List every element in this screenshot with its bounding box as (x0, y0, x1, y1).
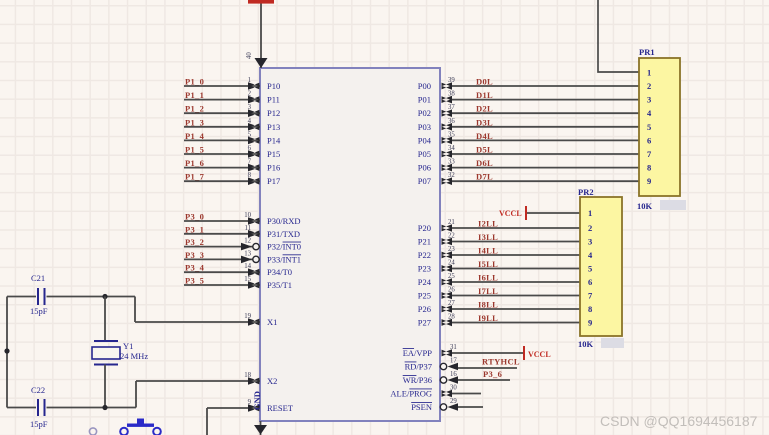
node junction left rail (4, 348, 9, 353)
svg-text:P3_2: P3_2 (185, 237, 204, 247)
svg-text:8: 8 (588, 304, 592, 314)
svg-text:35: 35 (448, 131, 455, 138)
svg-text:19: 19 (244, 313, 251, 320)
pin 31 arrow (442, 349, 453, 357)
pin 3 arrow (248, 109, 260, 117)
svg-text:P26: P26 (418, 304, 431, 314)
wire P3_3 to pin 13 (184, 258, 260, 260)
wire X2 pin 18 (136, 380, 260, 382)
wire P20 to PR2 pin 2 (452, 227, 580, 229)
pin 16 inversion bubble (440, 377, 446, 383)
svg-text:5: 5 (647, 122, 651, 132)
svg-text:P23: P23 (418, 264, 431, 274)
svg-text:P20: P20 (418, 223, 431, 233)
wire P06 to PR1 pin 8 (452, 167, 639, 169)
wire P3_2 to pin 12 (184, 246, 260, 248)
pin 21 arrow (442, 224, 453, 232)
svg-text:EA/VPP: EA/VPP (403, 348, 433, 358)
wire top rail down to X1 (134, 297, 136, 323)
wire P1_5 to pin 6 (184, 153, 260, 155)
svg-text:P14: P14 (267, 135, 281, 145)
svg-text:D3L: D3L (476, 117, 493, 127)
pin 17 arrow (448, 363, 459, 371)
svg-text:I2LL: I2LL (478, 219, 498, 229)
svg-text:10K: 10K (637, 201, 653, 211)
pin 4 arrow (248, 123, 260, 131)
svg-text:P3_6: P3_6 (483, 369, 502, 379)
wire P05 to PR1 pin 7 (452, 153, 639, 155)
svg-text:D0L: D0L (476, 77, 493, 87)
svg-text:P34/T0: P34/T0 (267, 267, 292, 277)
svg-text:D2L: D2L (476, 104, 493, 114)
pin 6 arrow (248, 150, 260, 158)
svg-text:10: 10 (244, 212, 251, 219)
PR2 faded annotation (601, 338, 624, 348)
pin 27 arrow (442, 305, 453, 313)
node faint pad left of button (89, 428, 96, 435)
svg-text:VCCL: VCCL (528, 350, 551, 359)
wire P3_4 to pin 14 (184, 271, 260, 273)
svg-text:11: 11 (244, 225, 251, 232)
svg-text:I5LL: I5LL (478, 259, 498, 269)
pin 13 arrow (241, 256, 252, 264)
svg-text:15: 15 (244, 276, 251, 283)
pin 25 arrow (442, 278, 453, 286)
svg-text:30: 30 (450, 385, 457, 392)
svg-text:P15: P15 (267, 149, 280, 159)
svg-text:P21: P21 (418, 237, 431, 247)
svg-text:8: 8 (248, 172, 252, 179)
svg-text:P24: P24 (418, 277, 432, 287)
svg-text:X2: X2 (267, 376, 277, 386)
pin 34 arrow (442, 150, 453, 158)
svg-text:1: 1 (248, 77, 251, 84)
wire C21 top rail right segment (47, 296, 136, 298)
pin 28 arrow (442, 319, 453, 327)
wire P1_2 to pin 3 (184, 112, 260, 114)
wire P1_3 to pin 4 (184, 126, 260, 128)
wire P02 to PR1 pin 4 (452, 112, 639, 114)
svg-text:P02: P02 (418, 108, 431, 118)
svg-text:13: 13 (244, 250, 251, 257)
svg-text:P00: P00 (418, 81, 431, 91)
svg-text:37: 37 (448, 104, 455, 111)
wire left ground rail (6, 297, 8, 408)
pin 17 inversion bubble (440, 363, 446, 369)
pin 36 arrow (442, 123, 453, 131)
svg-text:PSEN: PSEN (411, 402, 432, 412)
svg-text:6: 6 (647, 135, 651, 145)
pin 38 arrow (442, 96, 453, 104)
svg-text:3: 3 (647, 95, 651, 105)
svg-text:P1_7: P1_7 (185, 172, 205, 182)
svg-text:39: 39 (448, 77, 455, 84)
svg-text:5: 5 (588, 264, 592, 274)
pin 33 arrow (442, 164, 453, 172)
svg-text:I8LL: I8LL (478, 300, 498, 310)
svg-text:C22: C22 (31, 385, 45, 395)
pin 29 arrow (448, 403, 459, 411)
svg-text:P3_4: P3_4 (185, 263, 205, 273)
wire pin40 VCC stem (260, 3, 262, 68)
power VCCL bar (PR2 pin1) (525, 206, 527, 220)
wire P26 to PR2 pin 8 (452, 308, 580, 310)
svg-text:P3_5: P3_5 (185, 276, 204, 286)
svg-text:21: 21 (448, 219, 455, 226)
pin 14 arrow (248, 268, 260, 276)
svg-text:P1_2: P1_2 (185, 104, 204, 114)
pin 12 inversion bubble (253, 243, 259, 249)
wire P07 to PR1 pin 9 (452, 180, 639, 182)
svg-text:D6L: D6L (476, 158, 493, 168)
node junction crystal bottom (102, 405, 107, 410)
svg-text:18: 18 (244, 372, 251, 379)
svg-text:P1_3: P1_3 (185, 117, 204, 127)
svg-text:GND: GND (252, 391, 262, 410)
svg-text:P33/INT1: P33/INT1 (267, 254, 301, 264)
wire crystal bottom lead (104, 365, 106, 408)
svg-text:D1L: D1L (476, 90, 493, 100)
svg-text:14: 14 (244, 263, 251, 270)
svg-text:P01: P01 (418, 95, 431, 105)
svg-text:17: 17 (450, 358, 457, 365)
svg-text:D5L: D5L (476, 145, 493, 155)
wire P1_4 to pin 5 (184, 139, 260, 141)
pin 23 arrow (442, 251, 453, 259)
svg-text:25: 25 (448, 273, 455, 280)
svg-text:2: 2 (248, 91, 252, 98)
capacitor C21 plates (37, 288, 39, 305)
wire X1 pin 19 (135, 321, 260, 323)
svg-text:P1_1: P1_1 (185, 90, 204, 100)
svg-text:34: 34 (448, 145, 455, 152)
pin 13 inversion bubble (253, 256, 259, 262)
svg-text:P1_0: P1_0 (185, 77, 204, 87)
svg-text:D4L: D4L (476, 131, 493, 141)
wire RD/P37 net (458, 367, 517, 369)
wire P23 to PR2 pin 5 (452, 268, 580, 270)
svg-text:P25: P25 (418, 291, 431, 301)
wire VCCL to PR2 pin 1 (527, 212, 580, 214)
svg-text:24 MHz: 24 MHz (120, 351, 148, 361)
svg-text:P1_6: P1_6 (185, 158, 204, 168)
pin 15 arrow (248, 281, 260, 289)
wire WR/P36 net (458, 379, 510, 381)
svg-text:15pF: 15pF (30, 419, 48, 429)
pin 39 arrow (442, 82, 453, 90)
svg-text:27: 27 (448, 300, 455, 307)
svg-text:PR1: PR1 (639, 47, 655, 57)
wire ALE/PROG stub (452, 393, 481, 395)
svg-text:1: 1 (588, 208, 592, 218)
svg-text:PR2: PR2 (578, 187, 594, 197)
pin 22 arrow (442, 238, 453, 246)
svg-text:9: 9 (588, 318, 592, 328)
svg-text:9: 9 (647, 176, 651, 186)
svg-text:6: 6 (588, 277, 592, 287)
svg-text:3: 3 (248, 104, 252, 111)
wire P21 to PR2 pin 3 (452, 241, 580, 243)
wire VCC to PR1 pin 1 (598, 0, 639, 72)
node junction crystal top (102, 294, 107, 299)
pin 12 arrow (241, 243, 252, 251)
svg-text:32: 32 (448, 172, 455, 179)
svg-text:I7LL: I7LL (478, 286, 498, 296)
svg-text:4: 4 (248, 118, 252, 125)
svg-text:P35/T1: P35/T1 (267, 280, 292, 290)
svg-text:P3_1: P3_1 (185, 224, 204, 234)
svg-text:P07: P07 (418, 176, 431, 186)
resistor pack PR2 body (580, 197, 622, 336)
svg-text:36: 36 (448, 118, 455, 125)
wire P1_0 to pin 1 (184, 85, 260, 87)
svg-text:33: 33 (448, 159, 455, 166)
svg-text:P03: P03 (418, 122, 431, 132)
svg-text:C21: C21 (31, 273, 45, 283)
wire crystal top lead (104, 297, 106, 342)
wire PSEN stub (458, 406, 483, 408)
wire C21 top rail left segment (7, 296, 36, 298)
wire P27 to PR2 pin 9 (452, 322, 580, 324)
svg-text:P04: P04 (418, 135, 432, 145)
svg-text:6: 6 (248, 145, 252, 152)
wire P24 to PR2 pin 6 (452, 281, 580, 283)
wire pin20 GND stub (260, 421, 262, 435)
wire P01 to PR1 pin 3 (452, 99, 639, 101)
svg-text:P27: P27 (418, 318, 431, 328)
wire EA/VPP to VCCL (452, 352, 523, 354)
wire P22 to PR2 pin 4 (452, 254, 580, 256)
pin 20 arrow (254, 425, 267, 435)
svg-text:2: 2 (588, 223, 592, 233)
svg-text:12: 12 (244, 238, 251, 245)
svg-text:7: 7 (248, 159, 252, 166)
svg-text:P1_4: P1_4 (185, 131, 205, 141)
pin 19 arrow (248, 318, 260, 326)
pin 24 arrow (442, 265, 453, 273)
svg-text:RD/P37: RD/P37 (405, 362, 432, 372)
svg-text:P13: P13 (267, 122, 280, 132)
svg-text:I3LL: I3LL (478, 232, 498, 242)
pin 11 arrow (248, 230, 260, 238)
wire bottom rail up to X2 (135, 381, 137, 408)
pin 9 arrow (248, 404, 260, 412)
svg-text:3: 3 (588, 237, 592, 247)
op-amp U1 body: AT89C51 microcontroller rectangle (260, 68, 440, 421)
pin 8 arrow (248, 177, 260, 185)
svg-text:P31/TXD: P31/TXD (267, 229, 300, 239)
svg-text:RESET: RESET (267, 403, 294, 413)
pin 37 arrow (442, 109, 453, 117)
pin 35 arrow (442, 137, 453, 145)
pin 32 arrow (442, 177, 453, 185)
transistor S1 reset pushbutton (cropped) (120, 419, 161, 435)
wire P00 to PR1 pin 2 (452, 85, 639, 87)
pin 16 arrow (448, 376, 459, 384)
pin 40 arrow (255, 58, 268, 68)
svg-text:28: 28 (448, 314, 455, 321)
svg-text:P06: P06 (418, 163, 431, 173)
svg-text:VCCL: VCCL (499, 209, 522, 218)
svg-text:P30/RXD: P30/RXD (267, 216, 301, 226)
pin 29 inversion bubble (440, 404, 446, 410)
svg-text:31: 31 (450, 344, 457, 351)
pin 7 arrow (248, 164, 260, 172)
pin 26 arrow (442, 292, 453, 300)
wire C22 bottom rail left segment (7, 407, 36, 409)
svg-text:WR/P36: WR/P36 (403, 375, 432, 385)
svg-text:P17: P17 (267, 176, 280, 186)
svg-text:I6LL: I6LL (478, 273, 498, 283)
svg-text:P11: P11 (267, 95, 280, 105)
wire P03 to PR1 pin 5 (452, 126, 639, 128)
pin 1 arrow (248, 82, 260, 90)
svg-text:P05: P05 (418, 149, 431, 159)
wire P1_1 to pin 2 (184, 99, 260, 101)
wire P25 to PR2 pin 7 (452, 295, 580, 297)
wire P3_1 to pin 11 (184, 233, 260, 235)
svg-text:RTYHCL: RTYHCL (482, 357, 520, 367)
svg-text:16: 16 (450, 371, 457, 378)
wire P3_0 to pin 10 (184, 220, 260, 222)
power VCC symbol (top, cropped) (248, 0, 274, 4)
pin 5 arrow (248, 137, 260, 145)
svg-text:1: 1 (647, 68, 651, 78)
svg-text:P3_3: P3_3 (185, 250, 204, 260)
wire RESET pin 9 (207, 407, 260, 409)
svg-text:23: 23 (448, 246, 455, 253)
pin 2 arrow (248, 96, 260, 104)
svg-text:P10: P10 (267, 81, 280, 91)
power VCCL bar (EA) (523, 346, 525, 360)
svg-text:I4LL: I4LL (478, 246, 498, 256)
svg-text:10K: 10K (578, 339, 594, 349)
svg-text:8: 8 (647, 163, 651, 173)
svg-text:P12: P12 (267, 108, 280, 118)
wire C22 bottom rail right segment (47, 407, 137, 409)
svg-text:P3_0: P3_0 (185, 212, 204, 222)
svg-text:D7L: D7L (476, 172, 493, 182)
resistor pack PR1 body (639, 58, 680, 196)
svg-text:26: 26 (448, 287, 455, 294)
svg-text:X1: X1 (267, 317, 277, 327)
svg-text:29: 29 (450, 398, 457, 405)
svg-text:P1_5: P1_5 (185, 145, 204, 155)
svg-text:Y1: Y1 (123, 341, 133, 351)
svg-text:5: 5 (248, 131, 252, 138)
pin 10 arrow (248, 217, 260, 225)
svg-text:P32/INT0: P32/INT0 (267, 242, 301, 252)
wire P3_5 to pin 15 (184, 284, 260, 286)
wire P1_6 to pin 7 (184, 167, 260, 169)
svg-text:38: 38 (448, 91, 455, 98)
svg-text:P16: P16 (267, 163, 280, 173)
watermark CSDN (600, 413, 757, 429)
svg-text:I9LL: I9LL (478, 313, 498, 323)
svg-text:24: 24 (448, 260, 455, 267)
wire P04 to PR1 pin 6 (452, 139, 639, 141)
wire P1_7 to pin 8 (184, 180, 260, 182)
svg-text:15pF: 15pF (30, 306, 48, 316)
pin 30 arrow (442, 390, 453, 398)
svg-text:40: 40 (246, 52, 253, 59)
svg-text:P22: P22 (418, 250, 431, 260)
svg-text:ALE/PROG: ALE/PROG (390, 389, 432, 399)
pin 18 arrow (248, 377, 260, 385)
crystal Y1 (92, 341, 120, 365)
PR1 faded annotation (660, 200, 686, 210)
svg-text:2: 2 (647, 81, 651, 91)
svg-text:22: 22 (448, 233, 455, 240)
wire RESET vertical to reset circuit (206, 408, 208, 435)
capacitor C22 plates (37, 399, 39, 416)
